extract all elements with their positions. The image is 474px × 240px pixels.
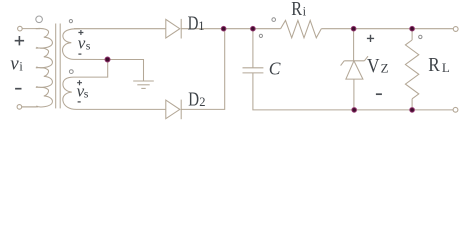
- svg-text:R: R: [291, 0, 302, 20]
- svg-text:R: R: [428, 55, 440, 76]
- svg-text:i: i: [19, 58, 23, 73]
- svg-text:i: i: [303, 5, 307, 19]
- svg-text:s: s: [84, 87, 89, 101]
- svg-text:D: D: [188, 14, 199, 35]
- svg-text:v: v: [78, 33, 86, 52]
- svg-text:s: s: [86, 39, 91, 53]
- svg-text:D: D: [188, 90, 199, 111]
- svg-text:1: 1: [198, 19, 204, 33]
- svg-text:C: C: [269, 58, 281, 78]
- svg-text:L: L: [442, 60, 450, 75]
- svg-text:v: v: [10, 54, 19, 75]
- svg-text:2: 2: [199, 95, 205, 109]
- svg-text:Z: Z: [381, 61, 389, 76]
- svg-text:V: V: [367, 56, 380, 77]
